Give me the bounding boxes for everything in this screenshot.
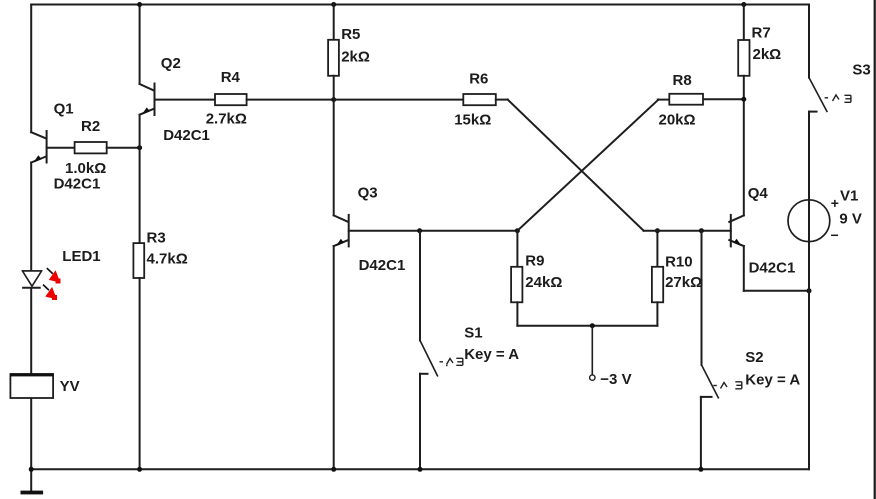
node bottom rail S1 bbox=[418, 467, 423, 472]
wire bottom rail bbox=[31, 468, 809, 470]
node S1 top bbox=[417, 228, 422, 233]
svg-text:R9: R9 bbox=[525, 252, 544, 269]
wire x=139.6 top bbox=[139, 5, 141, 85]
wire Q3 base bus bbox=[349, 230, 518, 232]
svg-text:2kΩ: 2kΩ bbox=[753, 46, 782, 63]
svg-text:YV: YV bbox=[60, 378, 80, 395]
svg-text:9 V: 9 V bbox=[839, 210, 862, 227]
LED arrow 2 bbox=[43, 285, 57, 300]
switch S3 bbox=[809, 5, 827, 113]
resistor R10 bbox=[652, 267, 663, 303]
S3 key glyph bbox=[825, 95, 851, 102]
wire Q4 emitter to V1 line bbox=[744, 290, 809, 292]
svg-text:4.7kΩ: 4.7kΩ bbox=[147, 250, 188, 267]
wire R9 top lead bbox=[516, 231, 518, 267]
wire Q4 emitter down bbox=[743, 246, 745, 291]
wire R6 right lead bbox=[496, 99, 508, 101]
svg-text:S3: S3 bbox=[852, 61, 870, 78]
resistor R9 bbox=[511, 267, 522, 303]
svg-text:24kΩ: 24kΩ bbox=[525, 274, 562, 291]
wire Q2 base to R4 bbox=[155, 99, 216, 101]
svg-text:S1: S1 bbox=[464, 324, 482, 341]
wire Q3 emitter to bottom rail bbox=[333, 246, 335, 469]
node R2 right bbox=[137, 145, 142, 150]
svg-text:2.7kΩ: 2.7kΩ bbox=[206, 111, 247, 128]
wire left vertical upper bbox=[30, 5, 32, 133]
switch S2 bbox=[701, 231, 719, 470]
svg-text:R2: R2 bbox=[81, 118, 100, 135]
node R9 top bbox=[515, 228, 520, 233]
source V1 circle bbox=[788, 200, 830, 242]
svg-text:1.0kΩ: 1.0kΩ bbox=[65, 160, 106, 177]
svg-text:D42C1: D42C1 bbox=[359, 257, 406, 274]
wire R4 to node bbox=[247, 99, 334, 101]
node top rail R7 bbox=[741, 2, 746, 7]
svg-text:R4: R4 bbox=[221, 69, 241, 86]
svg-text:LED1: LED1 bbox=[62, 248, 100, 265]
resistor R8 bbox=[669, 94, 703, 105]
svg-text:R3: R3 bbox=[147, 230, 166, 247]
transistor Q2 bbox=[140, 84, 155, 116]
LED LED1 bbox=[22, 271, 42, 288]
wire YV to bottom rail bbox=[30, 398, 32, 469]
wire diagonal R6 to Q4 base line bbox=[508, 100, 644, 231]
svg-text:R5: R5 bbox=[341, 26, 360, 43]
svg-text:Q4: Q4 bbox=[748, 185, 769, 202]
node bottom rail R3 bbox=[137, 467, 142, 472]
wire -3V lead bbox=[591, 326, 593, 375]
node R10 top bbox=[655, 228, 660, 233]
wire R10 bottom bbox=[656, 302, 658, 325]
svg-text:V1: V1 bbox=[840, 188, 858, 205]
wire R3 to bottom rail bbox=[139, 278, 141, 469]
wire S3 to V1 to bottom rail bbox=[808, 112, 810, 470]
transistor Q3 bbox=[334, 215, 349, 247]
terminal -3V open circle bbox=[590, 375, 595, 380]
wire diagonal Q3 base to R8 bbox=[517, 100, 658, 231]
svg-text:R8: R8 bbox=[673, 72, 692, 89]
resistor R4 bbox=[215, 94, 247, 105]
resistor R6 bbox=[463, 94, 496, 105]
relay coil YV bbox=[10, 374, 53, 398]
svg-text:S2: S2 bbox=[745, 349, 763, 366]
node bottom rail Q3 bbox=[331, 467, 336, 472]
wire R5 to Q3 collector bbox=[333, 76, 335, 216]
wire R9-R10 link bbox=[517, 325, 657, 327]
svg-text:Q2: Q2 bbox=[161, 55, 181, 72]
resistor R2 bbox=[75, 142, 107, 153]
node top rail R5 bbox=[331, 2, 336, 7]
wire Q2 emitter down through R2 node to R3 bbox=[139, 115, 141, 243]
svg-text:15kΩ: 15kΩ bbox=[454, 111, 491, 128]
svg-text:Key = A: Key = A bbox=[745, 371, 800, 388]
S1 key glyph bbox=[440, 358, 463, 365]
transistor Q1 bbox=[31, 131, 46, 163]
wire R9 bottom bbox=[516, 302, 518, 325]
wire R8 right lead bbox=[703, 98, 744, 100]
svg-text:R6: R6 bbox=[469, 70, 488, 87]
node V1 line bbox=[807, 288, 812, 293]
right screenshot border bbox=[874, 0, 876, 499]
wire Q1 base to R2 bbox=[47, 147, 75, 149]
wire bus to R6 bbox=[334, 99, 464, 101]
wire R10 top lead bbox=[656, 231, 658, 267]
wire Q4 base bus bbox=[644, 230, 731, 232]
wire LED to YV bbox=[30, 288, 32, 374]
node -3V tap bbox=[590, 323, 595, 328]
svg-text:−3 V: −3 V bbox=[600, 371, 631, 388]
svg-text:20kΩ: 20kΩ bbox=[659, 112, 696, 129]
node S2 top bbox=[699, 228, 704, 233]
svg-text:2kΩ: 2kΩ bbox=[341, 48, 370, 65]
svg-text:D42C1: D42C1 bbox=[54, 175, 101, 192]
svg-text:27kΩ: 27kΩ bbox=[665, 274, 702, 291]
node R7/R8 bbox=[741, 97, 746, 102]
svg-text:D42C1: D42C1 bbox=[749, 259, 796, 276]
svg-text:Q1: Q1 bbox=[54, 101, 74, 118]
wire top rail to R7 bbox=[743, 5, 745, 41]
node R4/R5/R6 bbox=[331, 97, 336, 102]
svg-text:R7: R7 bbox=[752, 25, 771, 42]
svg-text:D42C1: D42C1 bbox=[163, 127, 210, 144]
wire left vertical Q1 emitter to LED bbox=[30, 163, 32, 272]
node top rail Q2 bbox=[137, 2, 142, 7]
wire top rail to R5 bbox=[333, 5, 335, 40]
node bottom rail left bbox=[29, 467, 34, 472]
svg-text:Key = A: Key = A bbox=[464, 346, 519, 363]
node bottom rail S2 bbox=[698, 467, 703, 472]
svg-text:Q3: Q3 bbox=[358, 185, 378, 202]
resistor R3 bbox=[133, 243, 144, 278]
wire R2 to node bbox=[107, 147, 140, 149]
transistor Q4 (mirrored) bbox=[729, 215, 744, 247]
switch S1 bbox=[420, 231, 438, 470]
wire top rail bbox=[31, 4, 809, 6]
svg-text:−: − bbox=[831, 227, 839, 243]
resistor R7 bbox=[738, 40, 749, 76]
resistor R5 bbox=[328, 40, 339, 76]
LED arrow 1 bbox=[47, 268, 61, 283]
svg-text:R10: R10 bbox=[665, 253, 693, 270]
svg-text:+: + bbox=[831, 195, 839, 211]
ground bbox=[21, 469, 44, 494]
S2 key glyph bbox=[713, 382, 742, 389]
wire R7 to Q4 collector bbox=[743, 76, 745, 216]
